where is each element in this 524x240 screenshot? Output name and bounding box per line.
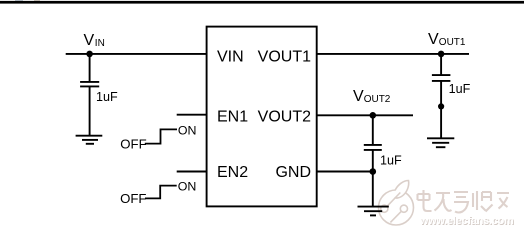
svg-text:EN1: EN1 [217,109,248,126]
svg-text:V: V [84,32,95,49]
switch S1 [145,129,177,143]
svg-text:VOUT2: VOUT2 [258,109,311,126]
svg-text:ON: ON [178,179,197,193]
svg-text:V: V [428,31,439,48]
wire VIN input [66,53,207,55]
svg-text:1uF: 1uF [96,90,118,104]
node C3 lower junction dot [438,103,444,109]
svg-text:V: V [353,88,364,105]
svg-text:OUT2: OUT2 [364,94,391,105]
capacitor C3 stems and plates [432,54,451,138]
capacitor C1 stems and plates [80,54,99,136]
net label VIN [84,32,105,49]
svg-text:OFF: OFF [120,137,146,152]
node VOUT1 junction dot [438,51,445,58]
svg-text:OUT1: OUT1 [439,37,466,48]
watermark url www.elecfans.com [419,215,515,228]
svg-text:VIN: VIN [217,49,244,66]
svg-text:GND: GND [275,164,311,181]
svg-text:1uF: 1uF [380,153,402,167]
node VOUT2 junction dot [370,112,377,119]
wire VOUT1 output [317,53,469,55]
svg-text:www.elecfans.com: www.elecfans.com [419,215,514,227]
ground G1 [76,136,103,144]
capacitor C2 stems and plates [364,115,382,206]
ground G2 [358,207,389,216]
ground G3 [427,138,454,147]
svg-text:EN2: EN2 [217,164,248,181]
node VIN junction dot [86,51,93,58]
watermark logo circle [379,181,414,226]
wire EN2 [177,171,207,173]
cropped text remnants top-left [15,0,40,1]
wire VOUT2 output [317,114,413,116]
svg-text:VOUT1: VOUT1 [258,49,311,66]
wire EN1 [177,114,207,116]
wire GND [317,171,373,173]
net label VOUT1 [428,31,466,48]
svg-text:OFF: OFF [120,191,146,206]
node GND junction dot [370,168,377,175]
watermark text dianzifashaoyou [418,190,510,213]
top border rule [0,1,524,4]
IC U1 body [207,27,317,207]
svg-text:1uF: 1uF [449,82,471,96]
switch S2 [145,186,177,199]
svg-text:ON: ON [178,124,197,138]
svg-text:IN: IN [95,38,105,49]
net label VOUT2 [353,88,391,105]
